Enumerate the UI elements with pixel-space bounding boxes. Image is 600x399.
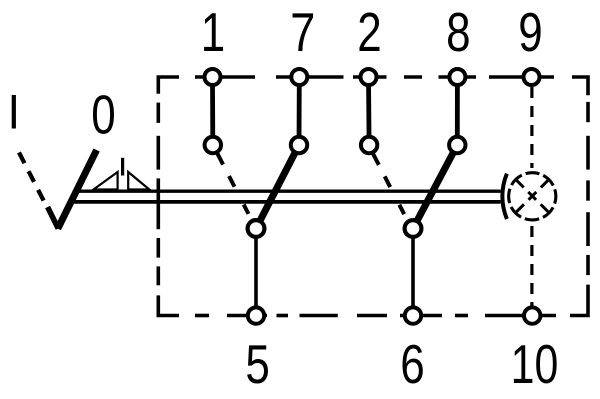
switch housing dashed border left [158, 103, 179, 316]
dashed wire terminal 9 to lamp [530, 87, 533, 168]
wire moving contact to terminal 5 [254, 230, 258, 314]
switch housing dashed border bottom [195, 314, 556, 318]
svg-text:1: 1 [201, 1, 225, 63]
label position I [12, 95, 16, 129]
detent left triangle [94, 172, 118, 190]
terminal 7 circle [291, 69, 307, 85]
lever position 0 solid [58, 150, 97, 229]
fixed contact circle col 2 [361, 137, 377, 153]
svg-text:6: 6 [400, 333, 424, 395]
fixed contact circle col 7 [291, 137, 307, 153]
lamp contact arc [502, 174, 507, 219]
wire moving contact to terminal 6 [411, 230, 415, 314]
moving contact circle 5 [248, 220, 265, 237]
wire stem terminal 1 [210, 78, 215, 144]
open contact dashed diagonal 2-6 [372, 152, 408, 222]
svg-text:5: 5 [245, 333, 269, 395]
svg-text:10: 10 [511, 334, 559, 395]
lamp cross diagonal NE-SW [515, 179, 549, 213]
svg-text:7: 7 [290, 1, 315, 63]
detent pin [121, 158, 124, 176]
wire stem terminal 2 [366, 78, 371, 144]
moving contact circle 6 [405, 220, 422, 237]
closed contact bridge 7-5 [256, 145, 299, 229]
svg-text:0: 0 [91, 84, 115, 146]
lever position I dashed [19, 153, 53, 220]
terminal 9 circle [524, 69, 540, 85]
open contact dashed diagonal 1-5 [216, 151, 252, 221]
wire stem terminal 8 [455, 78, 460, 144]
terminal 6 circle [405, 307, 421, 323]
actuator bar lower line [70, 200, 501, 204]
terminal 8 circle [449, 69, 465, 85]
wire stem terminal 7 [297, 78, 302, 144]
terminal 5 circle [248, 307, 264, 323]
lever pivot arm [48, 207, 59, 229]
actuator bar upper line [75, 189, 501, 192]
switch housing dashed border top [158, 77, 588, 95]
fixed contact circle col 1 [205, 137, 221, 153]
svg-text:2: 2 [357, 1, 381, 63]
terminal 2 circle [361, 69, 377, 85]
closed contact bridge 8-6 [413, 145, 457, 229]
svg-text:9: 9 [518, 1, 542, 63]
dashed wire lamp to terminal 10 [530, 226, 533, 306]
fixed contact circle col 8 [449, 137, 465, 153]
switch housing dashed border right [570, 102, 588, 316]
lamp dashed circle [509, 173, 556, 220]
terminal 1 circle [205, 69, 221, 85]
svg-text:8: 8 [446, 1, 470, 63]
detent right triangle [128, 172, 149, 190]
lamp cross diagonal NW-SE [515, 179, 549, 213]
terminal 10 circle [524, 307, 540, 323]
